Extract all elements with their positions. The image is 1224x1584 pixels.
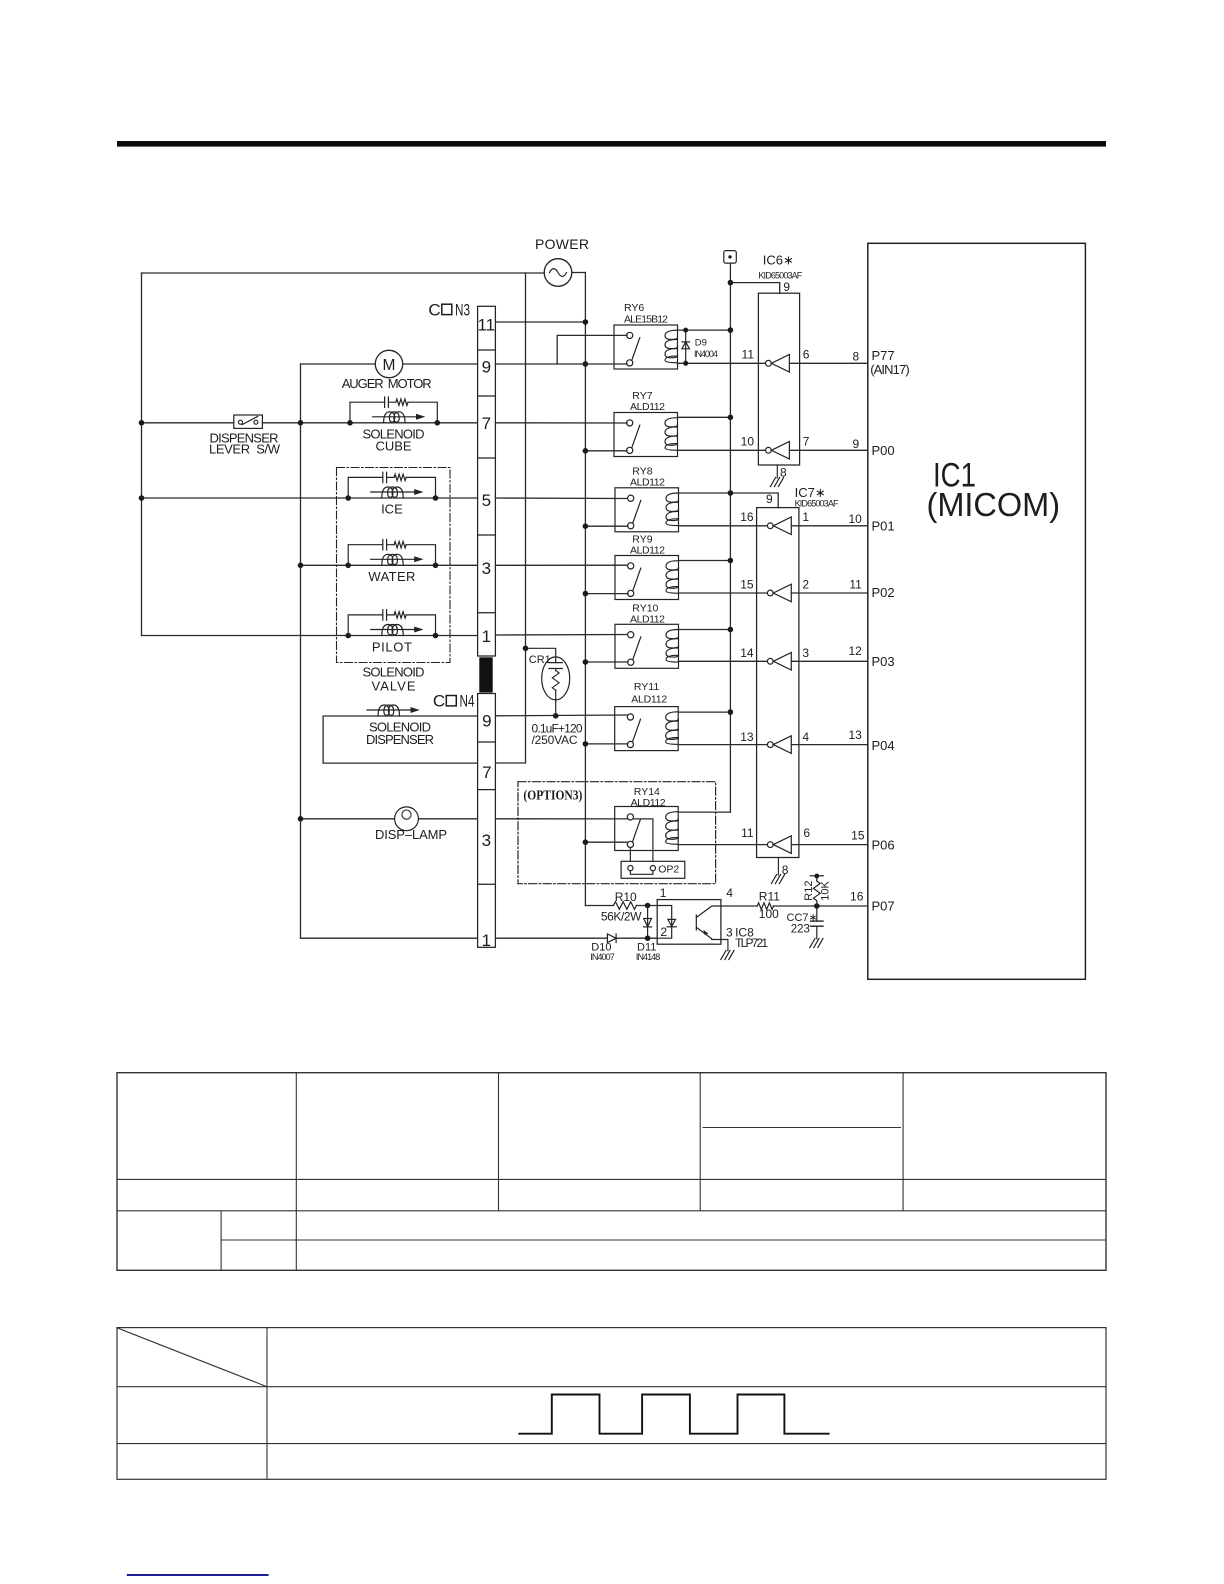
svg-text:1: 1 <box>482 931 491 950</box>
junction node at (87.3,0) <box>433 633 439 639</box>
svg-text:ALD112: ALD112 <box>630 477 665 489</box>
IC1 MICOM box <box>868 243 1086 979</box>
svg-text:9: 9 <box>482 712 491 731</box>
junction node at (730.4,712.1) <box>728 709 734 715</box>
relay RY9 <box>615 556 679 600</box>
diode D11 <box>644 906 652 939</box>
wire: IC8 pin4 to R11 to P07 <box>721 905 868 907</box>
connector CON3 <box>478 306 496 656</box>
IC8 internal LED <box>657 906 676 939</box>
wire: solenoid dispenser loop (CON4 pin9 + pin7) <box>323 716 477 763</box>
buffer IC6-2 <box>766 442 790 460</box>
svg-text:AUGER MOTOR: AUGER MOTOR <box>342 376 432 391</box>
svg-text:10: 10 <box>848 512 862 526</box>
svg-text:13: 13 <box>848 728 862 742</box>
DISP-LAMP lamp <box>395 807 419 831</box>
svg-text:15: 15 <box>740 578 754 592</box>
buffer IC7-3 <box>767 653 791 671</box>
svg-text:RY11: RY11 <box>634 681 659 693</box>
wire: IC6-1 output to MICOM P77 <box>789 362 867 364</box>
IC8 internal phototransistor <box>696 906 721 940</box>
wire: IC6-2 output to MICOM P00 <box>789 449 867 451</box>
junction on rail at pin11 <box>583 319 589 325</box>
relay RY11 <box>615 707 679 751</box>
junction on rail at pin9/RY6 <box>583 361 589 367</box>
svg-text:D9: D9 <box>695 338 707 349</box>
CR1 varistor <box>526 648 570 716</box>
IC6 driver array box <box>758 293 799 465</box>
junction node at (730.4,417.3) <box>728 415 734 421</box>
wire: RY9 coil bottom to IC7 input <box>679 592 768 594</box>
svg-text:PILOT: PILOT <box>372 640 412 655</box>
wire: RY10 coil top to feed rail <box>679 629 731 631</box>
svg-text:13: 13 <box>740 730 754 744</box>
OP2 jumper plug <box>621 861 685 878</box>
junction node at (141.5,498) <box>139 495 145 501</box>
svg-text:9: 9 <box>783 280 790 294</box>
IC7 driver array box <box>757 508 799 858</box>
junction node at (730.4,629.5) <box>728 627 734 633</box>
dash-dot option box <box>518 782 716 884</box>
junction node at (300.5,818.8) <box>298 816 304 822</box>
junction node at (525.5,648.3) <box>523 646 529 652</box>
junction node at (585.4,450.8) <box>583 448 589 454</box>
table 2 row lines <box>117 1387 1106 1444</box>
wire: RY10 coil bottom to IC7 input <box>679 660 768 662</box>
wire: CON4 pin1 to D10 <box>496 937 608 939</box>
svg-text:DISPENSER: DISPENSER <box>366 732 434 747</box>
ground IC6 pin8 <box>776 465 778 478</box>
junction node at (300.5,565.3) <box>298 563 304 569</box>
footer blue line <box>127 1574 269 1576</box>
svg-text:7: 7 <box>482 414 491 433</box>
junction node at (87.3,0) <box>435 420 441 426</box>
svg-text:N3: N3 <box>455 300 470 319</box>
svg-text:16: 16 <box>850 890 864 904</box>
wire: CON3 pin5 right to RY8 <box>496 497 627 500</box>
svg-text:7: 7 <box>482 763 491 782</box>
wire: bottom line CON4 pin1 left <box>301 937 478 939</box>
table 2 column line <box>266 1328 268 1480</box>
wire: R10 feed from neutral rail <box>585 905 657 907</box>
wire: top power line from left rail to POWER <box>142 272 545 274</box>
solenoid DISPENSER coil <box>367 705 420 716</box>
svg-text:5: 5 <box>482 491 491 510</box>
wire: RY9 coil top to feed rail <box>679 560 731 562</box>
svg-text:14: 14 <box>740 646 754 660</box>
svg-text:TLP721: TLP721 <box>735 936 768 950</box>
relay RY8 <box>615 488 679 532</box>
junction node at (0,0) <box>347 420 353 426</box>
junction node at (585.4,743.9) <box>583 741 589 747</box>
wire: WATER line (CON3 pin3) <box>301 564 478 566</box>
svg-text:3: 3 <box>802 646 809 660</box>
junction R12/CC7 on P07 line <box>814 903 820 909</box>
svg-text:3: 3 <box>482 831 491 850</box>
svg-text:9: 9 <box>766 492 773 506</box>
svg-text:P06: P06 <box>872 838 895 853</box>
wire: RY11 coil bottom to IC7 input <box>678 744 767 746</box>
svg-text:3: 3 <box>482 559 491 578</box>
svg-text:3: 3 <box>726 926 733 940</box>
table 1 row3/4 divider <box>221 1239 1106 1241</box>
capacitor CC7 <box>811 906 823 939</box>
svg-text:P02: P02 <box>872 585 895 600</box>
relay RY10 <box>615 624 679 668</box>
svg-text:IC6∗: IC6∗ <box>763 253 794 268</box>
svg-text:ALD112: ALD112 <box>630 401 665 413</box>
buffer IC7-5 <box>767 836 791 854</box>
relay RY6 <box>614 325 678 369</box>
svg-text:LEVER S/W: LEVER S/W <box>209 442 281 457</box>
buffer IC7-4 <box>767 736 791 754</box>
svg-text:1: 1 <box>802 510 809 524</box>
svg-text:(OPTION3): (OPTION3) <box>523 788 582 803</box>
ground IC7 pin8 <box>777 858 779 876</box>
junction node at (0,0) <box>345 633 351 639</box>
svg-text:7: 7 <box>803 435 810 449</box>
svg-text:CR1: CR1 <box>529 654 551 666</box>
wire: solenoid cube main run to CON3 pin7 <box>350 422 477 424</box>
diode D9 flyback <box>682 330 690 363</box>
svg-text:N4: N4 <box>460 692 475 711</box>
wire: switch to solenoid cube <box>262 422 350 424</box>
svg-text:KID65003AF: KID65003AF <box>758 270 802 280</box>
dispenser lever switch <box>234 415 263 428</box>
svg-text:12: 12 <box>848 644 862 658</box>
svg-text:8: 8 <box>853 350 860 364</box>
junction R10/D11/IC8 pin1 <box>645 903 651 909</box>
wire: IC7-5 output to MICOM P06 <box>791 844 868 846</box>
svg-text:P01: P01 <box>872 519 895 534</box>
wire: relay top-feed rail x=730.4 <box>729 263 731 812</box>
svg-text:P03: P03 <box>872 654 895 669</box>
svg-text:9: 9 <box>482 357 491 376</box>
wire: RY14 coil bottom to IC7 input <box>678 844 767 846</box>
wire: RY8 coil bottom to IC7 input <box>679 525 768 527</box>
wire: neutral rail x=585.4 <box>584 273 586 906</box>
svg-text:WATER: WATER <box>368 569 415 584</box>
connector CON4 <box>478 694 496 948</box>
junction node at (730.4,560.5) <box>728 558 734 564</box>
junction node at (0,0) <box>345 563 351 569</box>
svg-text:IN4007: IN4007 <box>590 952 614 962</box>
junction node at (647.6,938.2) <box>645 935 651 941</box>
table 1 row lines <box>117 1179 1106 1210</box>
resistor R12 pull-up <box>810 876 823 906</box>
junction node at (730.4,493) <box>728 490 734 496</box>
svg-text:16: 16 <box>740 510 754 524</box>
buffer IC6-1 <box>766 355 790 373</box>
wire: IC7-1 output to MICOM P01 <box>791 525 868 527</box>
wire: IC7-2 output to MICOM P02 <box>791 592 868 594</box>
svg-text:C: C <box>433 692 445 711</box>
top rule <box>117 141 1106 147</box>
svg-text:ICE: ICE <box>381 502 403 517</box>
wire: CON4 pin3 right into option box (RY14 upper contact) <box>496 818 627 820</box>
svg-text:R11: R11 <box>759 890 780 904</box>
wire: RY8 coil top to rail and IC7 pin9 elbow <box>679 493 779 508</box>
wire: IC7-4 output to MICOM P04 <box>791 744 868 746</box>
wire: IC8 pin3 to ground <box>721 940 728 951</box>
wire: PILOT line (CON3 pin1) <box>142 635 478 637</box>
wire: left rail (live) <box>141 273 143 636</box>
svg-text:(AIN17): (AIN17) <box>870 362 910 377</box>
junction node at (685.7,363.3) <box>683 361 688 366</box>
junction node at (141.5,422.8) <box>139 420 145 426</box>
wire: D10 to IC8 pin2 <box>616 937 657 939</box>
svg-text:4: 4 <box>726 886 733 900</box>
svg-text:P00: P00 <box>872 443 895 458</box>
CON3 pin numbers <box>477 315 495 646</box>
svg-text:56K/2W: 56K/2W <box>601 910 642 924</box>
solenoid cube <box>347 397 440 426</box>
svg-text:ALD112: ALD112 <box>631 694 667 706</box>
junction node at (0,0) <box>345 495 351 501</box>
table 2 header diagonal <box>118 1328 268 1387</box>
junction node at (685.7,330.1) <box>683 328 688 333</box>
junction node at (300.5,422.8) <box>298 420 304 426</box>
junction node at (585.4,593.6) <box>583 591 589 597</box>
wire: RY10 lower contact to rail <box>585 661 628 663</box>
svg-text:6: 6 <box>803 348 810 362</box>
svg-text:ALD112: ALD112 <box>630 614 665 626</box>
svg-text:15: 15 <box>851 829 865 843</box>
CON4 pin numbers <box>482 712 492 950</box>
node: power feed test point (small square) <box>724 251 737 264</box>
wire: rail x=525.5 from top wire to CON4 pin7 <box>496 273 526 763</box>
svg-text:2: 2 <box>802 578 809 592</box>
waveform pulse train <box>518 1395 829 1434</box>
wire: RY9 lower contact to rail <box>585 593 628 595</box>
buffer IC7-1 <box>767 517 791 535</box>
svg-text:11: 11 <box>742 348 755 362</box>
wire: RY11 coil top to feed rail <box>678 711 730 713</box>
wire: RY8 lower contact to rail <box>585 525 628 527</box>
svg-text:R12: R12 <box>803 881 815 901</box>
svg-text:10: 10 <box>741 435 755 449</box>
svg-text:223: 223 <box>791 924 810 936</box>
diode D10 <box>607 934 616 943</box>
wire: RY6 coil top to feed rail <box>678 329 731 331</box>
wire: IC7-3 output to MICOM P03 <box>791 660 868 662</box>
svg-text:SOLENOID: SOLENOID <box>363 665 425 680</box>
svg-text:IN4148: IN4148 <box>636 952 660 962</box>
svg-text:11: 11 <box>849 578 862 592</box>
solenoid WATER <box>345 540 438 569</box>
wire: RY6 lower contact from rail <box>585 363 627 365</box>
table 1 column lines (header rows) <box>296 1073 903 1271</box>
wire: mid rail x=300.5 <box>300 364 302 938</box>
svg-text:C: C <box>428 300 440 319</box>
junction node at (87.3,0) <box>433 563 439 569</box>
wire: CON3 pin11 to neutral rail <box>496 321 586 323</box>
solenoid ICE <box>345 472 438 501</box>
svg-text:100: 100 <box>759 907 779 921</box>
buffer IC7-2 <box>767 584 791 602</box>
svg-text:VALVE: VALVE <box>372 679 416 694</box>
svg-text:11: 11 <box>477 315 495 334</box>
wire: RY7 lower contact to rail <box>585 450 627 452</box>
svg-text:P77: P77 <box>872 348 895 363</box>
svg-text:9: 9 <box>853 437 860 451</box>
svg-text:10K: 10K <box>820 880 832 900</box>
auger motor M circle <box>375 350 402 377</box>
resistor R11 <box>757 903 773 910</box>
POWER source AC symbol <box>544 259 572 287</box>
dash-dot box solenoid valve <box>337 468 451 663</box>
svg-text:8: 8 <box>780 466 787 480</box>
svg-text:1: 1 <box>482 627 491 646</box>
svg-text:M: M <box>383 357 396 374</box>
wire: CON3 pin7 right to RY7 <box>496 422 627 424</box>
svg-text:6: 6 <box>803 826 810 840</box>
wire: CON3 pin1 right to RY10 <box>496 634 627 637</box>
svg-text:RY6: RY6 <box>624 302 644 314</box>
wire: CON3 pin3 right to RY9 <box>496 564 627 566</box>
junction node at (585.4,526.2) <box>583 523 589 529</box>
wire: IC6 pin9 supply elbow <box>730 283 779 294</box>
svg-text:IN4004: IN4004 <box>694 349 718 359</box>
connector key (black block) <box>479 657 492 692</box>
svg-text:1: 1 <box>660 886 667 900</box>
wire: ICE line (CON3 pin5) <box>142 497 478 499</box>
svg-text:OP2: OP2 <box>658 864 679 876</box>
wire: RY14 coil top to feed rail elbow <box>678 811 730 813</box>
svg-text:CC7∗: CC7∗ <box>787 912 818 924</box>
junction node at (555.7,715.8) <box>553 713 559 719</box>
svg-text:KID65003AF: KID65003AF <box>795 499 839 509</box>
svg-text:8: 8 <box>782 863 789 877</box>
svg-text:ALD112: ALD112 <box>630 545 665 557</box>
svg-text:4: 4 <box>802 730 809 744</box>
junction node at (730,256.9) <box>728 255 731 258</box>
svg-text:R10: R10 <box>615 890 637 904</box>
svg-text:CUBE: CUBE <box>375 439 411 454</box>
wire: RY14 lower contact from rail <box>585 841 627 843</box>
wire: dispenser lever line (CON3 pin7) left segment <box>142 422 234 424</box>
relay RY7 <box>614 413 678 457</box>
junction node at (585.4,662) <box>583 659 589 665</box>
junction node at (816.8,876) <box>814 874 819 879</box>
svg-text:(MICOM): (MICOM) <box>927 486 1061 524</box>
wire: RY14 contacts down to OP2 <box>630 819 653 861</box>
wire: elbow to RY6 upper contact <box>557 335 627 364</box>
wire: RY7 coil bottom to IC6 input <box>678 449 766 451</box>
solenoid PILOT <box>345 610 438 639</box>
junction node at (730.4,330.1) <box>728 327 734 333</box>
wire: RY7 coil top to feed rail <box>678 416 731 418</box>
junction node at (585.4,842.2) <box>583 839 589 845</box>
wire: auger motor line to CON3 pin9 <box>301 363 478 365</box>
svg-text:P07: P07 <box>872 899 895 914</box>
junction node at (730.4,282.6) <box>728 280 734 286</box>
wire: CON3 pin9 right to rail <box>496 363 586 365</box>
svg-text:P04: P04 <box>872 738 895 753</box>
resistor R10 <box>613 902 636 910</box>
svg-text:/250VAC: /250VAC <box>532 733 578 747</box>
junction node at (87.3,0) <box>433 495 439 501</box>
svg-text:11: 11 <box>741 826 754 840</box>
svg-text:DISP–LAMP: DISP–LAMP <box>375 827 447 842</box>
svg-text:ALE15B12: ALE15B12 <box>624 314 668 326</box>
svg-text:2: 2 <box>660 925 667 939</box>
wire: CON4 pin9 right to RY11 upper contact <box>496 714 627 717</box>
table 1 rows3/4 left verticals <box>220 1211 222 1271</box>
wire: RY6 coil bottom to IC6 input <box>678 362 766 364</box>
table 1 outer frame <box>117 1073 1106 1271</box>
wire: DISP-LAMP line (CON4 pin3) <box>301 818 478 820</box>
svg-text:ALD112: ALD112 <box>631 797 666 809</box>
svg-text:POWER: POWER <box>535 236 589 252</box>
wire: RY11 lower contact to rail <box>585 743 628 745</box>
wire: POWER right to rail <box>572 272 586 274</box>
table 1 column4 inner divider <box>703 1127 902 1129</box>
table 2 outer frame <box>117 1328 1106 1480</box>
relay RY14 <box>615 807 679 851</box>
optocoupler IC8 box <box>657 900 721 945</box>
